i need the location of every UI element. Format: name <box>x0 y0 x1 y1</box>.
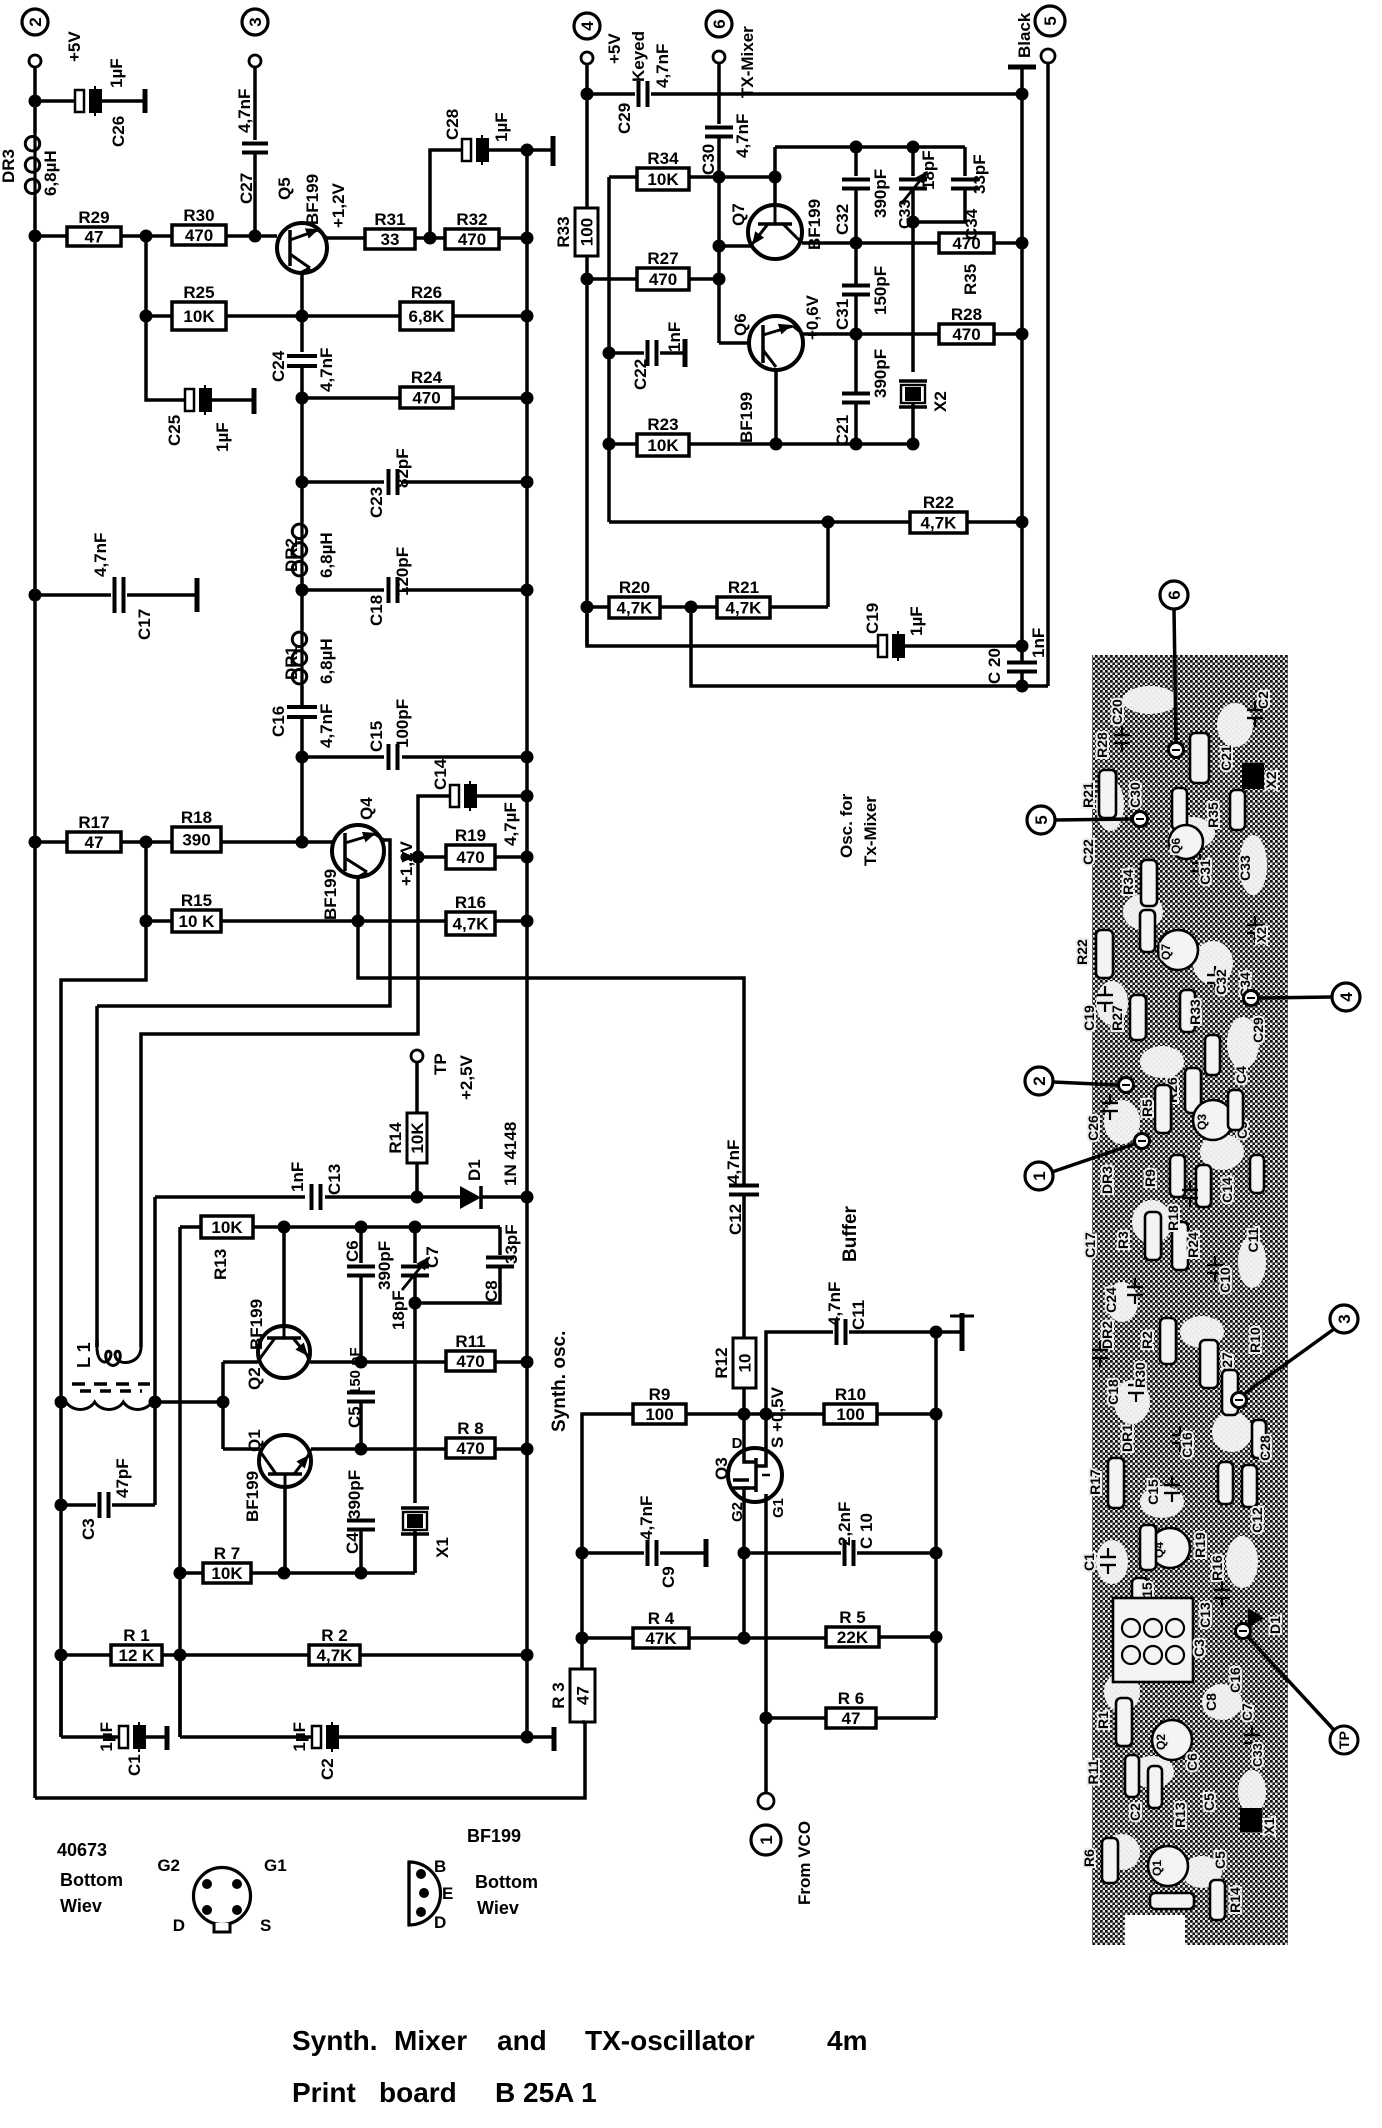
node callout 5 <box>1027 806 1055 834</box>
svg-text:G1: G1 <box>770 1498 787 1518</box>
wire C28 branch <box>430 150 462 238</box>
svg-text:1µF: 1µF <box>97 1722 116 1752</box>
resistor R35 <box>939 233 994 253</box>
node junction <box>907 216 920 229</box>
svg-text:Synth.: Synth. <box>292 2025 378 2056</box>
svg-text:R1: R1 <box>1095 1711 1111 1729</box>
svg-text:R27: R27 <box>647 249 678 268</box>
svg-text:4,7K: 4,7K <box>921 514 958 533</box>
resistor R28 <box>939 324 994 344</box>
svg-text:R27: R27 <box>1109 1005 1125 1031</box>
wire <box>994 332 1022 336</box>
resistor R26 <box>302 314 400 318</box>
svg-text:C21: C21 <box>833 415 852 446</box>
svg-text:Q6: Q6 <box>731 313 750 336</box>
resistor R1 <box>61 1653 111 1657</box>
capacitor C19 <box>878 635 887 657</box>
node junction <box>850 328 863 341</box>
svg-text:150pF: 150pF <box>871 266 890 315</box>
transistor Q7 <box>748 205 802 259</box>
svg-text:C14: C14 <box>1219 1177 1235 1203</box>
svg-text:10 K: 10 K <box>179 912 216 931</box>
wire Q6 emitter <box>774 369 778 444</box>
svg-text:DR3: DR3 <box>1099 1166 1115 1194</box>
svg-text:6,8µH: 6,8µH <box>317 532 336 578</box>
svg-text:4: 4 <box>1337 992 1356 1002</box>
node junction <box>738 1632 751 1645</box>
svg-text:1nF: 1nF <box>1029 628 1048 658</box>
wire <box>994 241 1022 245</box>
svg-text:R22: R22 <box>923 493 954 512</box>
svg-text:C28: C28 <box>1257 1435 1273 1461</box>
svg-text:C24: C24 <box>269 350 288 382</box>
node callout 3 <box>1330 1305 1358 1333</box>
svg-text:C15: C15 <box>367 721 386 752</box>
svg-text:C2: C2 <box>1255 691 1271 709</box>
node junction <box>55 1499 68 1512</box>
svg-text:18pF: 18pF <box>389 1290 408 1330</box>
svg-text:C20: C20 <box>1109 699 1125 725</box>
svg-text:Q6: Q6 <box>1169 838 1183 854</box>
wire <box>33 67 37 101</box>
svg-text:+1,2V: +1,2V <box>397 840 416 886</box>
wire <box>499 236 527 240</box>
wire <box>226 234 277 238</box>
svg-text:C22: C22 <box>631 359 650 390</box>
ground <box>165 1726 170 1750</box>
svg-text:R16: R16 <box>1209 1555 1225 1581</box>
svg-text:B: B <box>434 1857 446 1876</box>
wire right bus of buffer <box>934 1332 938 1718</box>
capacitor C11 <box>766 1332 833 1414</box>
svg-text:Q4: Q4 <box>357 797 376 820</box>
wire <box>359 1402 363 1449</box>
svg-text:R14: R14 <box>1227 1887 1243 1913</box>
svg-text:C17: C17 <box>135 609 154 640</box>
svg-text:Q3: Q3 <box>712 1457 731 1480</box>
svg-text:DR1: DR1 <box>1119 1424 1135 1452</box>
wire <box>300 272 304 316</box>
resistor R6 <box>766 1716 826 1720</box>
svg-text:Buffer: Buffer <box>840 1205 861 1262</box>
node junction <box>55 1649 68 1662</box>
wire Q3 G1 down <box>764 1502 768 1795</box>
svg-text:4,7nF: 4,7nF <box>91 533 110 577</box>
svg-text:R21: R21 <box>728 578 759 597</box>
wire terminal4 vertical <box>585 94 589 208</box>
svg-text:C14: C14 <box>431 758 450 790</box>
node junction <box>296 392 309 405</box>
svg-text:Mixer: Mixer <box>394 2025 467 2056</box>
node junction <box>409 1221 422 1234</box>
wire Q1 collector row <box>311 1447 446 1451</box>
svg-text:4,7nF: 4,7nF <box>724 1140 743 1184</box>
wire <box>212 398 254 402</box>
fet Q3 <box>728 1448 782 1502</box>
svg-text:C24: C24 <box>1103 1287 1119 1313</box>
capacitor C16 <box>300 686 304 706</box>
svg-text:C33: C33 <box>1250 1743 1265 1767</box>
wire Q7 emitter left <box>719 244 752 248</box>
wire bottom row of osc <box>609 442 913 446</box>
svg-text:TP: TP <box>431 1053 450 1075</box>
svg-text:10K: 10K <box>211 1564 243 1583</box>
svg-text:R29: R29 <box>78 208 109 227</box>
svg-text:47: 47 <box>85 833 104 852</box>
capacitor C19 row <box>587 607 878 646</box>
svg-text:C25: C25 <box>165 415 184 446</box>
svg-text:Wiev: Wiev <box>60 1896 102 1916</box>
node junction <box>29 589 42 602</box>
svg-text:Q7: Q7 <box>729 203 748 226</box>
svg-text:Q7: Q7 <box>1159 944 1173 960</box>
svg-text:C32: C32 <box>1213 969 1229 995</box>
svg-text:R 2: R 2 <box>321 1626 347 1645</box>
svg-text:C7: C7 <box>1239 1703 1255 1721</box>
svg-text:Q5: Q5 <box>275 177 294 200</box>
svg-text:X2: X2 <box>1263 771 1279 788</box>
svg-text:C4: C4 <box>1233 1066 1249 1084</box>
node junction <box>278 1221 291 1234</box>
wire <box>253 1225 500 1229</box>
node junction <box>521 790 534 803</box>
svg-text:BF199: BF199 <box>303 174 322 225</box>
svg-text:+5V: +5V <box>605 33 624 64</box>
wire <box>300 398 304 482</box>
ground <box>960 1313 965 1351</box>
svg-text:C26: C26 <box>109 116 128 147</box>
wire left bus <box>33 236 37 1798</box>
node junction <box>55 1396 68 1409</box>
svg-text:C31: C31 <box>1197 859 1213 885</box>
wire Q7-Q6 vertical <box>717 177 721 343</box>
svg-text:4,7nF: 4,7nF <box>235 89 254 133</box>
svg-text:R34: R34 <box>1120 869 1136 895</box>
wire Q7 base top <box>773 147 777 205</box>
svg-text:+1,2V: +1,2V <box>329 182 348 228</box>
svg-text:Bottom: Bottom <box>475 1872 538 1892</box>
capacitor C20 <box>1007 661 1037 665</box>
svg-text:Synth. osc.: Synth. osc. <box>549 1331 570 1432</box>
svg-text:Print: Print <box>292 2077 356 2108</box>
svg-text:1µF: 1µF <box>492 112 511 142</box>
svg-text:R 3: R 3 <box>549 1682 568 1708</box>
wire <box>689 277 719 281</box>
capacitor C29 <box>587 92 635 96</box>
node junction <box>296 476 309 489</box>
svg-text:1µF: 1µF <box>107 58 126 88</box>
node junction <box>603 347 616 360</box>
svg-text:1: 1 <box>757 1835 776 1844</box>
svg-text:C32: C32 <box>833 204 852 235</box>
node junction <box>1016 680 1029 693</box>
capacitor C30 <box>717 63 721 124</box>
wire R13 left vertical <box>178 1227 182 1737</box>
node junction <box>1016 328 1029 341</box>
svg-text:33pF: 33pF <box>502 1224 521 1264</box>
svg-text:47: 47 <box>842 1709 861 1728</box>
wire Q4 collector to stair <box>97 840 390 1006</box>
wire Q7 collector right <box>802 241 939 245</box>
svg-text:C18: C18 <box>1105 1379 1121 1405</box>
ground <box>143 89 148 113</box>
wire <box>221 919 446 923</box>
svg-text:10K: 10K <box>647 436 679 455</box>
ground <box>552 1727 557 1751</box>
inductor L1 primary <box>95 1340 99 1347</box>
wire terminal 5 down <box>1046 63 1050 686</box>
svg-text:C16: C16 <box>1227 1667 1243 1693</box>
wire Q4 emitter down <box>356 877 360 921</box>
node terminal 4 <box>574 13 600 39</box>
node terminal 6 <box>706 11 732 37</box>
capacitor C23 <box>302 480 384 484</box>
node callout 4 <box>1332 983 1360 1011</box>
wire <box>967 520 1022 524</box>
svg-text:C6: C6 <box>343 1240 362 1262</box>
svg-text:C19: C19 <box>863 603 882 634</box>
svg-text:D1: D1 <box>465 1159 484 1181</box>
svg-text:12 K: 12 K <box>119 1646 156 1665</box>
svg-text:4m: 4m <box>827 2025 867 2056</box>
svg-text:TX-oscillator: TX-oscillator <box>585 2025 755 2056</box>
capacitor C18 <box>302 588 384 592</box>
node junction <box>1016 237 1029 250</box>
node junction <box>576 1547 589 1560</box>
svg-text:BF199: BF199 <box>321 869 340 920</box>
svg-text:33: 33 <box>381 230 400 249</box>
svg-text:Bottom: Bottom <box>60 1870 123 1890</box>
node terminal 2 <box>22 9 48 35</box>
node junction <box>576 1632 589 1645</box>
svg-text:DR3: DR3 <box>0 149 18 183</box>
capacitor C25 <box>185 389 194 411</box>
resistor R30 <box>172 225 226 245</box>
wire R9 left vertical <box>582 1414 633 1638</box>
svg-text:D1: D1 <box>1267 1616 1283 1634</box>
wire <box>102 99 145 103</box>
svg-text:3: 3 <box>246 17 265 26</box>
svg-text:C2: C2 <box>1127 1803 1143 1821</box>
node junction <box>355 1443 368 1456</box>
ground <box>195 578 200 612</box>
svg-text:100pF: 100pF <box>393 699 412 748</box>
wire Q6 base <box>719 341 749 345</box>
resistor R14 <box>415 1062 419 1113</box>
ground <box>252 388 257 414</box>
svg-text:R11: R11 <box>455 1332 485 1351</box>
pcb components <box>1099 770 1116 818</box>
svg-text:1nF: 1nF <box>665 322 684 352</box>
resistor R24 <box>302 396 400 400</box>
svg-text:18pF: 18pF <box>919 150 938 190</box>
node junction <box>521 1356 534 1369</box>
svg-text:C13: C13 <box>325 1164 344 1195</box>
ground <box>683 339 688 367</box>
svg-text:R21: R21 <box>1080 782 1096 808</box>
svg-text:C11: C11 <box>1245 1227 1261 1252</box>
capacitor C6 <box>359 1227 363 1263</box>
node junction <box>174 1567 187 1580</box>
node junction <box>1016 640 1029 653</box>
svg-text:R9: R9 <box>649 1385 671 1404</box>
svg-text:R33: R33 <box>1187 999 1203 1025</box>
svg-text:R30: R30 <box>1132 1362 1148 1388</box>
capacitor C4 <box>347 1519 375 1523</box>
node junction <box>409 1297 422 1310</box>
node junction <box>713 273 726 286</box>
node junction <box>738 1547 751 1560</box>
transistor Q6 <box>749 316 803 370</box>
wire <box>495 1360 527 1364</box>
svg-text:2: 2 <box>26 17 45 26</box>
svg-text:L 1: L 1 <box>74 1342 94 1368</box>
svg-text:4,7K: 4,7K <box>453 915 490 934</box>
svg-text:22K: 22K <box>837 1628 869 1647</box>
node junction <box>521 310 534 323</box>
svg-text:4,7nF: 4,7nF <box>317 348 336 392</box>
svg-text:4,7K: 4,7K <box>617 599 654 618</box>
svg-text:10K: 10K <box>647 170 679 189</box>
transistor Q2 <box>258 1326 310 1378</box>
resistor R16 <box>446 912 495 935</box>
node junction <box>760 1712 773 1725</box>
wire <box>689 1636 826 1640</box>
svg-text:1N 4148: 1N 4148 <box>501 1122 520 1186</box>
node junction <box>581 273 594 286</box>
wire <box>415 236 445 240</box>
svg-text:S: S <box>260 1916 271 1935</box>
svg-text:1µF: 1µF <box>290 1722 309 1752</box>
capacitor C1 <box>59 1655 63 1737</box>
node junction <box>217 1396 230 1409</box>
pcb L1 former <box>1113 1598 1193 1682</box>
node junction <box>760 1408 773 1421</box>
svg-text:C3: C3 <box>79 1518 98 1540</box>
svg-text:C29: C29 <box>615 103 634 134</box>
svg-text:R19: R19 <box>1192 1532 1208 1558</box>
resistor R8 <box>446 1438 495 1458</box>
resistor R17 <box>35 840 67 844</box>
svg-text:board: board <box>379 2077 457 2108</box>
svg-text:DR2: DR2 <box>282 538 301 572</box>
capacitor C27 <box>253 67 257 140</box>
capacitor C28 <box>462 139 471 161</box>
svg-text:5: 5 <box>1032 815 1051 824</box>
node junction <box>296 751 309 764</box>
pcb pads and callouts <box>1169 743 1184 758</box>
wire <box>495 919 527 923</box>
transistor Q1 <box>259 1435 311 1487</box>
node junction <box>581 601 594 614</box>
svg-text:R17: R17 <box>78 813 109 832</box>
svg-text:10K: 10K <box>211 1218 243 1237</box>
wire <box>495 855 527 859</box>
wire <box>495 1447 527 1451</box>
svg-text:R28: R28 <box>1094 732 1110 758</box>
svg-text:1: 1 <box>1030 1171 1049 1180</box>
wire <box>121 234 172 238</box>
wire <box>770 605 828 609</box>
svg-text:B 25A 1: B 25A 1 <box>495 2077 597 2108</box>
resistor R22 row <box>609 520 910 524</box>
svg-text:4,7nF: 4,7nF <box>825 1282 844 1326</box>
svg-text:Keyed: Keyed <box>629 31 648 82</box>
svg-text:5: 5 <box>1041 16 1060 25</box>
svg-text:1µF: 1µF <box>213 422 232 452</box>
node junction <box>850 141 863 154</box>
svg-text:Tx-Mixer: Tx-Mixer <box>861 796 880 866</box>
svg-text:470: 470 <box>649 270 677 289</box>
wire bottom return <box>691 607 1048 686</box>
node junction <box>140 230 153 243</box>
svg-text:82pF: 82pF <box>393 448 412 488</box>
wire stair C from R19 node <box>141 857 418 1347</box>
diode D1 1N4148 <box>460 1186 481 1209</box>
wire <box>300 757 304 842</box>
node junction <box>850 237 863 250</box>
svg-text:4,7K: 4,7K <box>317 1646 354 1665</box>
svg-text:Q2: Q2 <box>1154 1734 1168 1750</box>
resistor R2 <box>309 1645 360 1665</box>
inductor DR3 <box>33 101 37 133</box>
svg-text:R20: R20 <box>619 578 650 597</box>
node junction <box>1016 88 1029 101</box>
wire <box>453 314 527 318</box>
svg-text:4,7nF: 4,7nF <box>317 704 336 748</box>
svg-text:4,7nF: 4,7nF <box>637 1496 656 1540</box>
resistor R31 <box>327 236 365 240</box>
node junction <box>521 392 534 405</box>
wire top row <box>775 145 965 149</box>
resistor R21 <box>660 605 717 609</box>
svg-text:BF199: BF199 <box>247 1299 266 1350</box>
svg-text:390pF: 390pF <box>345 1470 364 1519</box>
svg-text:R6: R6 <box>1081 1849 1097 1867</box>
svg-text:S +0,5V: S +0,5V <box>768 1386 787 1448</box>
svg-text:BF199: BF199 <box>467 1826 521 1846</box>
node junction <box>412 851 425 864</box>
node junction <box>822 516 835 529</box>
inductor DR1 <box>300 590 304 630</box>
node junction <box>352 915 365 928</box>
resistor R10 <box>824 1404 877 1424</box>
wire <box>453 396 527 400</box>
svg-text:R35: R35 <box>961 264 980 295</box>
svg-text:C33: C33 <box>1237 855 1253 881</box>
svg-text:C8: C8 <box>1203 1693 1219 1711</box>
svg-text:6: 6 <box>1165 590 1184 599</box>
svg-text:10K: 10K <box>183 307 215 326</box>
capacitor C12 <box>729 1184 759 1188</box>
capacitor C33 trimmer <box>911 147 915 176</box>
wire X2 branch <box>911 222 915 372</box>
wire <box>877 1412 936 1416</box>
capacitor C7 trimmer <box>413 1227 417 1263</box>
svg-text:From VCO: From VCO <box>795 1821 814 1905</box>
capacitor C2 <box>178 1655 182 1737</box>
resistor R11 <box>446 1351 495 1371</box>
svg-text:C4: C4 <box>343 1532 362 1554</box>
wire <box>879 1635 936 1639</box>
node junction <box>930 1326 943 1339</box>
wire main right bus of left section <box>525 150 529 1737</box>
wire X1 branch <box>413 1303 417 1503</box>
crystal X1 <box>401 1506 429 1510</box>
svg-text:C11: C11 <box>849 1300 868 1330</box>
node junction <box>581 88 594 101</box>
node terminal 1 From VCO <box>758 1793 774 1809</box>
